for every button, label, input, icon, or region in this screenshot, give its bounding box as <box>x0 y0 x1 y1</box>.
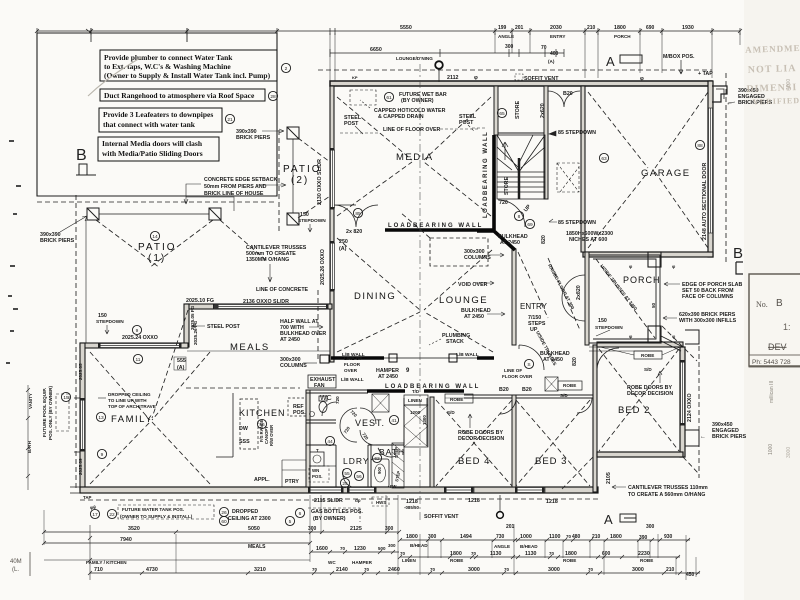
svg-text:FUTURE WATER TANK POS.: FUTURE WATER TANK POS. <box>122 507 184 512</box>
circled 11 <box>133 354 142 363</box>
svg-text:S/D: S/D <box>644 367 652 372</box>
svg-text:CEILING AT 2300: CEILING AT 2300 <box>228 516 271 522</box>
svg-text:2140: 2140 <box>336 567 348 573</box>
scan text bottom left margin <box>10 552 30 576</box>
svg-text:LOADBEARING WALL: LOADBEARING WALL <box>388 223 483 229</box>
circled 21 <box>225 114 234 123</box>
circled 85 <box>353 208 362 217</box>
svg-text:(BY OWNER): (BY OWNER) <box>401 98 434 104</box>
wall: L/B wall lounge south segment <box>477 356 494 359</box>
svg-text:TO LINE UP WITH: TO LINE UP WITH <box>108 398 147 403</box>
svg-text:2460: 2460 <box>388 567 400 573</box>
door: wc <box>322 402 336 416</box>
circled 28 <box>268 91 277 100</box>
wet bar dashed box <box>350 90 376 105</box>
svg-text:60: 60 <box>221 519 227 525</box>
svg-text:WN: WN <box>312 468 319 473</box>
ceiling ridge: meals/family <box>152 310 188 418</box>
circled 56 kitchen <box>257 419 266 428</box>
pier: patio2 bottom <box>287 213 299 225</box>
svg-text:55: 55 <box>344 471 350 477</box>
wall: bed2 north <box>597 342 683 347</box>
left wall bottom hooks <box>70 487 80 493</box>
svg-text:STACK: STACK <box>446 339 464 345</box>
svg-text:300: 300 <box>646 524 655 530</box>
svg-text:A: A <box>606 54 615 69</box>
dim line bottom L2 <box>44 542 310 544</box>
svg-text:480: 480 <box>572 534 581 540</box>
svg-text:9: 9 <box>136 328 139 334</box>
circled 63 <box>599 153 608 162</box>
bed2 east piers <box>685 330 699 344</box>
circled 9 meals <box>132 325 141 334</box>
arrow 85 stepdown <box>549 131 556 136</box>
svg-text:DROPPED CEILING: DROPPED CEILING <box>108 392 151 397</box>
door: bed4 <box>500 398 516 414</box>
svg-text:85 STEPDOWN: 85 STEPDOWN <box>558 220 596 226</box>
circled 15 <box>61 392 70 401</box>
svg-text:WITH 300x300 INFILLS: WITH 300x300 INFILLS <box>679 318 737 324</box>
svg-text:88: 88 <box>697 143 703 149</box>
svg-text:B/HEAD: B/HEAD <box>520 544 538 549</box>
svg-text:1300: 1300 <box>422 415 427 425</box>
svg-text:13: 13 <box>98 415 104 421</box>
svg-text:22: 22 <box>109 512 115 518</box>
svg-text:LINE OF CONCRETE: LINE OF CONCRETE <box>256 287 309 293</box>
svg-text:DEV: DEV <box>768 342 787 352</box>
ceiling: porch diagonal <box>596 259 655 338</box>
wall: garage east <box>708 81 713 257</box>
svg-text:PORCH: PORCH <box>623 275 661 285</box>
linen box <box>404 395 428 405</box>
svg-text:KP: KP <box>352 75 358 80</box>
svg-text:210: 210 <box>587 25 596 31</box>
svg-text:ANGLE: ANGLE <box>494 544 510 549</box>
svg-text:-085/50: -085/50 <box>404 505 419 510</box>
right margin vertical faint text <box>768 79 792 458</box>
circled 9 family <box>97 449 106 458</box>
svg-text:2x620: 2x620 <box>540 103 546 118</box>
svg-text:Internal Media doors will clas: Internal Media doors will clash <box>102 139 203 148</box>
svg-text:MEDIA: MEDIA <box>396 152 434 163</box>
svg-text:POST: POST <box>344 121 359 127</box>
svg-text:65: 65 <box>499 111 505 117</box>
svg-text:28: 28 <box>270 94 276 100</box>
ceiling X: patio2 <box>298 138 330 218</box>
svg-text:M/BOX POS.: M/BOX POS. <box>663 54 695 60</box>
wall: north exterior (media to garage) <box>330 81 712 86</box>
svg-text:ROBE: ROBE <box>450 397 463 402</box>
ceiling X: dining/lounge <box>337 238 493 352</box>
ceiling: entry raised floor diagonal <box>518 252 580 330</box>
extension verticals top <box>187 33 740 81</box>
circled 41 <box>389 415 398 424</box>
line: patio2 beam vertical <box>292 139 294 213</box>
svg-text:STORE: STORE <box>515 100 521 119</box>
stair: outline <box>497 135 545 199</box>
svg-text:VERIFIED: VERIFIED <box>753 96 800 107</box>
pencil smudge in notes rect <box>88 57 142 96</box>
capped water leader <box>360 100 370 108</box>
wall: bed2 south <box>597 452 683 457</box>
wall: bed2 west <box>593 345 597 492</box>
svg-text:OVER: OVER <box>344 368 358 373</box>
svg-text:FACE OF COLUMNS: FACE OF COLUMNS <box>682 294 734 300</box>
svg-text:300: 300 <box>428 534 437 540</box>
wall: loadbearing angled at entry <box>477 231 515 250</box>
svg-text:NOT LIA: NOT LIA <box>748 63 797 76</box>
svg-text:6650: 6650 <box>370 47 382 53</box>
patio2 dashed west edge <box>278 130 280 232</box>
window: media west sliding door 2130 OXXO <box>331 150 335 208</box>
circled 65 <box>497 108 506 117</box>
svg-text:1:: 1: <box>783 322 791 332</box>
dim ticks row1 <box>37 28 740 35</box>
svg-text:ROBE: ROBE <box>563 558 576 563</box>
svg-text:MEALS: MEALS <box>248 544 266 550</box>
svg-text:(Owner to Supply & Install Wat: (Owner to Supply & Install Water Tank in… <box>104 71 271 80</box>
svg-text:9: 9 <box>101 452 104 458</box>
svg-text:70: 70 <box>340 546 346 551</box>
svg-text:63: 63 <box>601 156 607 162</box>
svg-text:2025.05: 2025.05 <box>78 363 83 380</box>
section marker B right <box>733 245 743 274</box>
kitchen dropped ceiling dashed <box>186 387 300 389</box>
ref pos dashed <box>288 398 306 416</box>
roof overhang: south below wall <box>80 330 699 500</box>
circled 61 <box>384 92 393 101</box>
svg-text:720: 720 <box>335 396 340 404</box>
note box 4 <box>98 137 219 161</box>
svg-text:690: 690 <box>646 25 655 31</box>
svg-text:5550: 5550 <box>400 25 412 31</box>
svg-text:710: 710 <box>94 567 103 573</box>
arrow concrete edge right <box>258 183 286 187</box>
robe box bed2 <box>634 351 662 359</box>
svg-text:POS.: POS. <box>312 474 323 479</box>
circled 14 <box>150 231 159 240</box>
ceiling X: patio1 right pier diagonal <box>149 220 268 268</box>
svg-text:1800: 1800 <box>610 534 622 540</box>
wall: kitchen east / wc west <box>306 390 310 487</box>
section line A-A vertical dashed <box>419 64 421 520</box>
soffit vent dashed box <box>515 74 523 80</box>
svg-text:555: 555 <box>177 358 186 364</box>
svg-text:21: 21 <box>227 117 233 123</box>
porch pier SE <box>648 326 661 343</box>
svg-text:MEALS: MEALS <box>230 342 270 353</box>
door: hall north double doors 2x620 <box>548 91 580 107</box>
svg-text:201: 201 <box>506 524 515 530</box>
svg-text:ROBE: ROBE <box>641 353 654 358</box>
svg-text:PTRY: PTRY <box>285 479 299 485</box>
outline rectangle around notes / patio roof <box>37 28 277 196</box>
pier: patio1 right 390x390 <box>209 208 221 220</box>
svg-text:40M: 40M <box>10 559 22 565</box>
arrow 150 stepdown meals <box>105 325 109 334</box>
svg-text:ROBE: ROBE <box>450 558 463 563</box>
drain circle bottom <box>497 495 504 518</box>
pier: patio1 left 390x390 <box>87 208 99 220</box>
circled 88 <box>695 140 704 149</box>
wall: stair east / entry hall west <box>544 86 548 199</box>
circled 8 stair <box>514 211 523 220</box>
column: 300x300 meals corner <box>320 355 329 363</box>
svg-text:70: 70 <box>400 551 406 556</box>
arrow brick piers patio2 <box>262 129 284 133</box>
future pool equip dashed box <box>56 394 69 431</box>
svg-text:S/D: S/D <box>447 410 455 415</box>
svg-text:LOUNGE: LOUNGE <box>439 295 488 306</box>
svg-text:70: 70 <box>430 567 436 572</box>
svg-text:1218: 1218 <box>546 499 558 505</box>
svg-text:70: 70 <box>504 567 510 572</box>
wall: entry east / porch west <box>585 252 589 345</box>
svg-text:SOFFIT VENT: SOFFIT VENT <box>524 76 559 82</box>
arrow bulkhead lounge <box>487 312 505 316</box>
svg-text:2x 820: 2x 820 <box>346 229 362 235</box>
svg-text:BED 4: BED 4 <box>458 456 490 467</box>
svg-text:1100: 1100 <box>549 534 561 540</box>
svg-text:2025.09: 2025.09 <box>78 458 83 475</box>
svg-text:R/W OVER: R/W OVER <box>269 425 274 446</box>
svg-text:820: 820 <box>541 235 547 244</box>
svg-text:25: 25 <box>342 481 348 487</box>
svg-text:←: ← <box>700 434 706 440</box>
svg-text:SSS: SSS <box>239 439 250 445</box>
svg-text:that connect with water tank: that connect with water tank <box>103 120 196 129</box>
svg-text:B/HEAD: B/HEAD <box>410 543 428 548</box>
roof overhang: north <box>318 69 712 71</box>
svg-text:LOUNGE/D'NING: LOUNGE/D'NING <box>396 56 433 61</box>
left bottom vertical dim <box>89 525 91 580</box>
dim line bottom L1 <box>44 531 399 533</box>
svg-text:1494: 1494 <box>460 534 472 540</box>
wall: meals west <box>184 304 189 347</box>
svg-text:1600: 1600 <box>316 546 328 552</box>
circled 6 <box>295 508 304 517</box>
svg-text:DINING: DINING <box>354 291 396 302</box>
wall: garage west <box>581 86 585 252</box>
leader arrows center <box>26 253 680 522</box>
arrow cantilever bed2 <box>612 485 626 489</box>
circled 17 <box>90 509 99 518</box>
svg-text:AT 2450: AT 2450 <box>378 374 398 380</box>
svg-text:S: S <box>527 362 530 368</box>
svg-text:70: 70 <box>541 45 547 51</box>
window: south wall ldry <box>349 488 375 493</box>
lounge void dashed rect <box>430 238 488 266</box>
svg-text:CANTILEVER TRUSSES 110mm: CANTILEVER TRUSSES 110mm <box>628 485 708 491</box>
line: patio1 slab edge west <box>85 220 87 343</box>
window: meals north sliding <box>215 305 328 309</box>
svg-text:STORE: STORE <box>504 176 510 195</box>
svg-text:No.: No. <box>756 300 768 309</box>
svg-text:+ TAP: + TAP <box>698 71 713 77</box>
arrow steel post left <box>355 126 363 134</box>
wall: bath east <box>403 398 405 445</box>
gas bottles dashed box <box>308 508 360 522</box>
svg-text:GARAGE: GARAGE <box>641 168 691 179</box>
svg-text:2130 OXXO SL/DR: 2130 OXXO SL/DR <box>317 159 323 205</box>
svg-text:450: 450 <box>686 572 695 578</box>
step strip bath <box>392 443 404 488</box>
svg-text:STEPDOWN: STEPDOWN <box>298 218 326 224</box>
ceiling X: patio1 left pier diagonal <box>96 220 160 268</box>
ceiling X: bed4/bed3 hall <box>436 400 590 486</box>
svg-text:SOFFIT VENT: SOFFIT VENT <box>424 514 459 520</box>
dim line top row2 <box>330 52 564 54</box>
right margin lighter band <box>744 0 800 600</box>
svg-text:1130: 1130 <box>525 551 537 557</box>
arrow steel post meals <box>192 324 205 328</box>
svg-text:7940: 7940 <box>120 537 132 543</box>
hws dashed box <box>372 497 389 506</box>
svg-text:Provide 3 Leafeaters to downpi: Provide 3 Leafeaters to downpipes <box>103 110 213 119</box>
steel post square on meals wall <box>214 305 219 310</box>
svg-text:dp: dp <box>355 498 361 503</box>
svg-text:210: 210 <box>666 567 675 573</box>
linen hatch cupboard <box>404 405 428 447</box>
section marker A top <box>606 54 642 69</box>
svg-text:LOADBEARING WALL: LOADBEARING WALL <box>385 384 480 390</box>
svg-text:HWS: HWS <box>376 500 386 505</box>
patio1 dashed boundary <box>37 201 277 203</box>
wall: loadbearing vertical (media east) <box>492 135 496 230</box>
meals south ceiling line <box>187 350 330 352</box>
arrow void over <box>476 281 494 285</box>
svg-text:300: 300 <box>308 526 317 532</box>
svg-text:BRICK PIERS: BRICK PIERS <box>712 434 747 440</box>
arrow plumbing stack <box>429 339 441 345</box>
circled 55 <box>342 468 351 477</box>
scan noise marks left edge <box>6 140 21 364</box>
svg-text:2124 OXXO: 2124 OXXO <box>687 393 693 422</box>
svg-text:15: 15 <box>63 395 69 401</box>
svg-text:AT 2450: AT 2450 <box>280 337 300 343</box>
svg-text:TOP OF ARCHITRAVE: TOP OF ARCHITRAVE <box>108 404 156 409</box>
note box 2 <box>100 89 265 101</box>
svg-text:B: B <box>733 245 743 262</box>
svg-text:φ: φ <box>474 75 478 81</box>
svg-text:BRICK LINE OF HOUSE: BRICK LINE OF HOUSE <box>204 191 264 197</box>
svg-text:B: B <box>76 147 87 164</box>
svg-text:L/B WALL: L/B WALL <box>456 352 479 358</box>
window: dining west 2025.26 OXXO <box>331 243 335 290</box>
svg-text:φθ: φθ <box>90 505 96 510</box>
svg-text:FLOOR OVER: FLOOR OVER <box>502 374 533 379</box>
svg-text:210: 210 <box>592 534 601 540</box>
svg-text:KITCHEN: KITCHEN <box>239 408 286 418</box>
wall: garage south <box>583 252 713 257</box>
arrow 150 stepdown porch <box>596 330 610 336</box>
svg-text:1800: 1800 <box>565 551 577 557</box>
arrow 150 stepdown media <box>308 224 312 232</box>
wc basin <box>310 412 315 417</box>
svg-text:CONCRETE EDGE SETBACK: CONCRETE EDGE SETBACK <box>204 177 277 183</box>
svg-text:BRICK PIERS: BRICK PIERS <box>40 238 75 244</box>
porch inner step <box>593 259 656 339</box>
column: 300x300 at L/B wall left <box>389 354 397 362</box>
svg-text:PATIO: PATIO <box>283 164 322 175</box>
svg-text:199: 199 <box>498 25 507 31</box>
svg-text:1800: 1800 <box>406 534 418 540</box>
stair: winders <box>497 135 545 172</box>
svg-text:3000: 3000 <box>468 567 480 573</box>
svg-text:(A): (A) <box>548 59 555 64</box>
svg-text:(1): (1) <box>148 253 166 264</box>
svg-text:ENTRY: ENTRY <box>520 302 548 311</box>
svg-text:1930: 1930 <box>682 25 694 31</box>
svg-text:2112: 2112 <box>447 75 459 81</box>
robe hatch hall <box>545 377 558 391</box>
wc toilet <box>319 402 327 413</box>
window: family north <box>100 344 180 348</box>
svg-text:1130: 1130 <box>490 551 502 557</box>
kitchen bench <box>216 393 233 457</box>
svg-text:ROBE: ROBE <box>640 558 653 563</box>
wall: ldry north / vest south <box>306 445 336 487</box>
svg-text:STEEL POST: STEEL POST <box>207 324 241 330</box>
svg-text:(A): (A) <box>339 246 347 252</box>
svg-text:300: 300 <box>385 526 394 532</box>
ceiling: bed2 outer dashed <box>562 326 699 489</box>
bath tub <box>371 459 389 487</box>
arrow robe doors bed4 <box>468 414 472 428</box>
wall: south exterior <box>80 487 598 493</box>
circled 26 <box>219 507 228 516</box>
wall: vest east robes <box>404 398 427 446</box>
arrow brick piers patio1 <box>60 216 87 232</box>
door: entry to hall south <box>519 345 544 370</box>
circled 5 <box>285 516 294 525</box>
svg-text:with Media/Patio Sliding Doors: with Media/Patio Sliding Doors <box>102 149 203 158</box>
vent circle on north wall <box>435 61 443 82</box>
svg-text:POS. ONLY (BY OWNER): POS. ONLY (BY OWNER) <box>48 386 53 440</box>
svg-text:150: 150 <box>98 313 107 319</box>
wall: hall south / beds north (thin part) <box>464 395 593 398</box>
door: media south to stair area <box>498 200 525 227</box>
svg-text:2125: 2125 <box>350 526 362 532</box>
svg-text:390: 390 <box>639 535 648 541</box>
arrow cantilever down <box>268 264 272 282</box>
svg-text:φ: φ <box>640 76 644 82</box>
svg-text:VANITY: VANITY <box>28 393 33 409</box>
arrow 300x300 lounge <box>488 253 504 257</box>
svg-text:1000: 1000 <box>768 444 774 455</box>
svg-text:DECOR DECISION: DECOR DECISION <box>627 391 673 397</box>
window: south wall bed4 <box>446 488 474 493</box>
box 555 (A) <box>174 357 186 370</box>
svg-text:5050: 5050 <box>248 526 260 532</box>
svg-text:(2): (2) <box>291 175 309 186</box>
svg-text:50mm FROM PIERS AND: 50mm FROM PIERS AND <box>204 184 267 190</box>
porch step bottom <box>589 347 662 351</box>
wall: loadbearing media south <box>385 228 494 232</box>
svg-text:70: 70 <box>364 567 370 572</box>
svg-text:AT 2450: AT 2450 <box>500 240 520 246</box>
svg-text:5: 5 <box>289 519 292 525</box>
svg-text:DROPPED: DROPPED <box>232 509 258 515</box>
svg-text:1230: 1230 <box>354 546 366 552</box>
window: south wall family sliding 2115 SL/DR <box>310 488 342 493</box>
circled 22 <box>107 509 116 518</box>
svg-text:1218: 1218 <box>468 498 480 504</box>
wall: meals north <box>186 304 332 309</box>
porch outline <box>589 255 660 343</box>
svg-text:70: 70 <box>566 534 572 539</box>
svg-text:50: 50 <box>651 302 656 308</box>
